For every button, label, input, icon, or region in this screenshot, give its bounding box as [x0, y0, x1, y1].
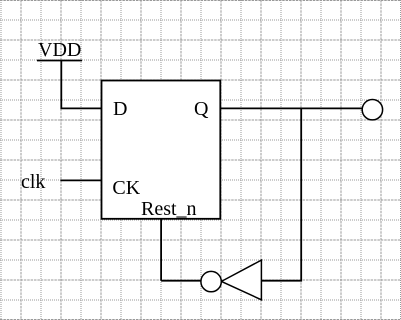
svg-text:Q: Q — [194, 98, 209, 120]
svg-text:D: D — [113, 98, 127, 120]
svg-text:CK: CK — [112, 177, 140, 199]
svg-text:VDD: VDD — [38, 39, 81, 61]
svg-text:clk: clk — [21, 171, 45, 193]
svg-text:Rest_n: Rest_n — [141, 198, 197, 220]
